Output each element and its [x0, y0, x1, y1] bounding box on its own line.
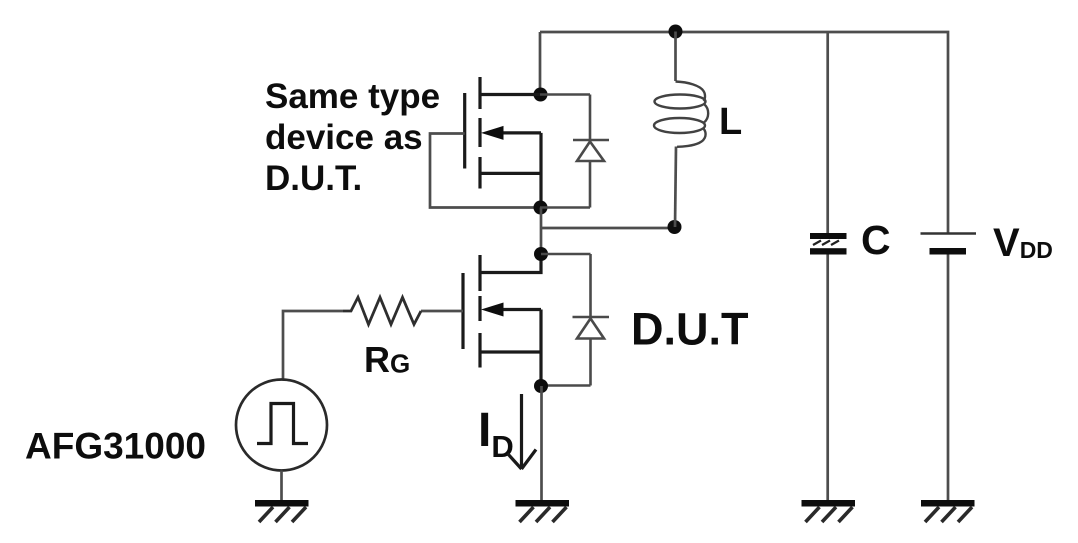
- node Q2 drain: [534, 247, 548, 261]
- svg-text:VDD: VDD: [993, 221, 1053, 265]
- node inductor bottom: [668, 220, 682, 234]
- svg-text:AFG31000: AFG31000: [25, 426, 206, 467]
- svg-text:C: C: [861, 217, 891, 263]
- ground under D.U.T.: [516, 500, 570, 522]
- svg-text:D.U.T: D.U.T: [631, 304, 749, 355]
- node top rail / inductor tap: [669, 25, 683, 39]
- source V1 AFG31000 pulse generator: [236, 380, 327, 471]
- svg-text:RG: RG: [364, 339, 410, 380]
- diode D2 body diode of D.U.T.: [541, 254, 609, 386]
- transistor Q2 D.U.T.: [463, 254, 541, 386]
- svg-text:Same typedevice asD.U.T.: Same typedevice asD.U.T.: [265, 77, 440, 198]
- ground under AFG31000: [255, 500, 309, 522]
- node Q1 source / switch node: [534, 201, 548, 215]
- wire inductor bottom lead: [675, 147, 676, 228]
- inductor L coil: [654, 82, 708, 147]
- wire gate of Q2 to resistor: [421, 310, 463, 313]
- diode D1 body diode of Q1: [540, 95, 609, 208]
- transistor Q1 (same type device as D.U.T.): [465, 77, 541, 208]
- node Q2 source: [534, 379, 548, 393]
- ground under capacitor: [802, 500, 856, 522]
- capacitor C: [810, 233, 847, 255]
- wire capacitor to ground: [826, 255, 829, 501]
- svg-text:L: L: [719, 101, 742, 143]
- resistor RG zigzag: [343, 297, 421, 324]
- wire switch node down to D.U.T. drain: [540, 208, 543, 255]
- wire AFG output to resistor: [283, 311, 343, 380]
- wire V1 to ground: [280, 471, 283, 501]
- wire inductor top lead: [674, 32, 677, 82]
- wire Q1 drain riser: [539, 32, 542, 95]
- wire top rail from Q1 drain to VDD corner: [540, 32, 948, 234]
- battery VDD: [921, 234, 977, 255]
- wire Q1 gate tied to source loop: [430, 134, 540, 208]
- wire capacitor branch riser: [826, 32, 829, 233]
- node Q1 drain: [534, 88, 548, 102]
- ground under VDD: [921, 500, 975, 522]
- wire switch node to inductor bottom: [541, 227, 675, 230]
- wire Q2 source to ground: [540, 386, 543, 500]
- wire VDD to ground: [947, 255, 950, 501]
- arrow ID current direction: [508, 394, 537, 469]
